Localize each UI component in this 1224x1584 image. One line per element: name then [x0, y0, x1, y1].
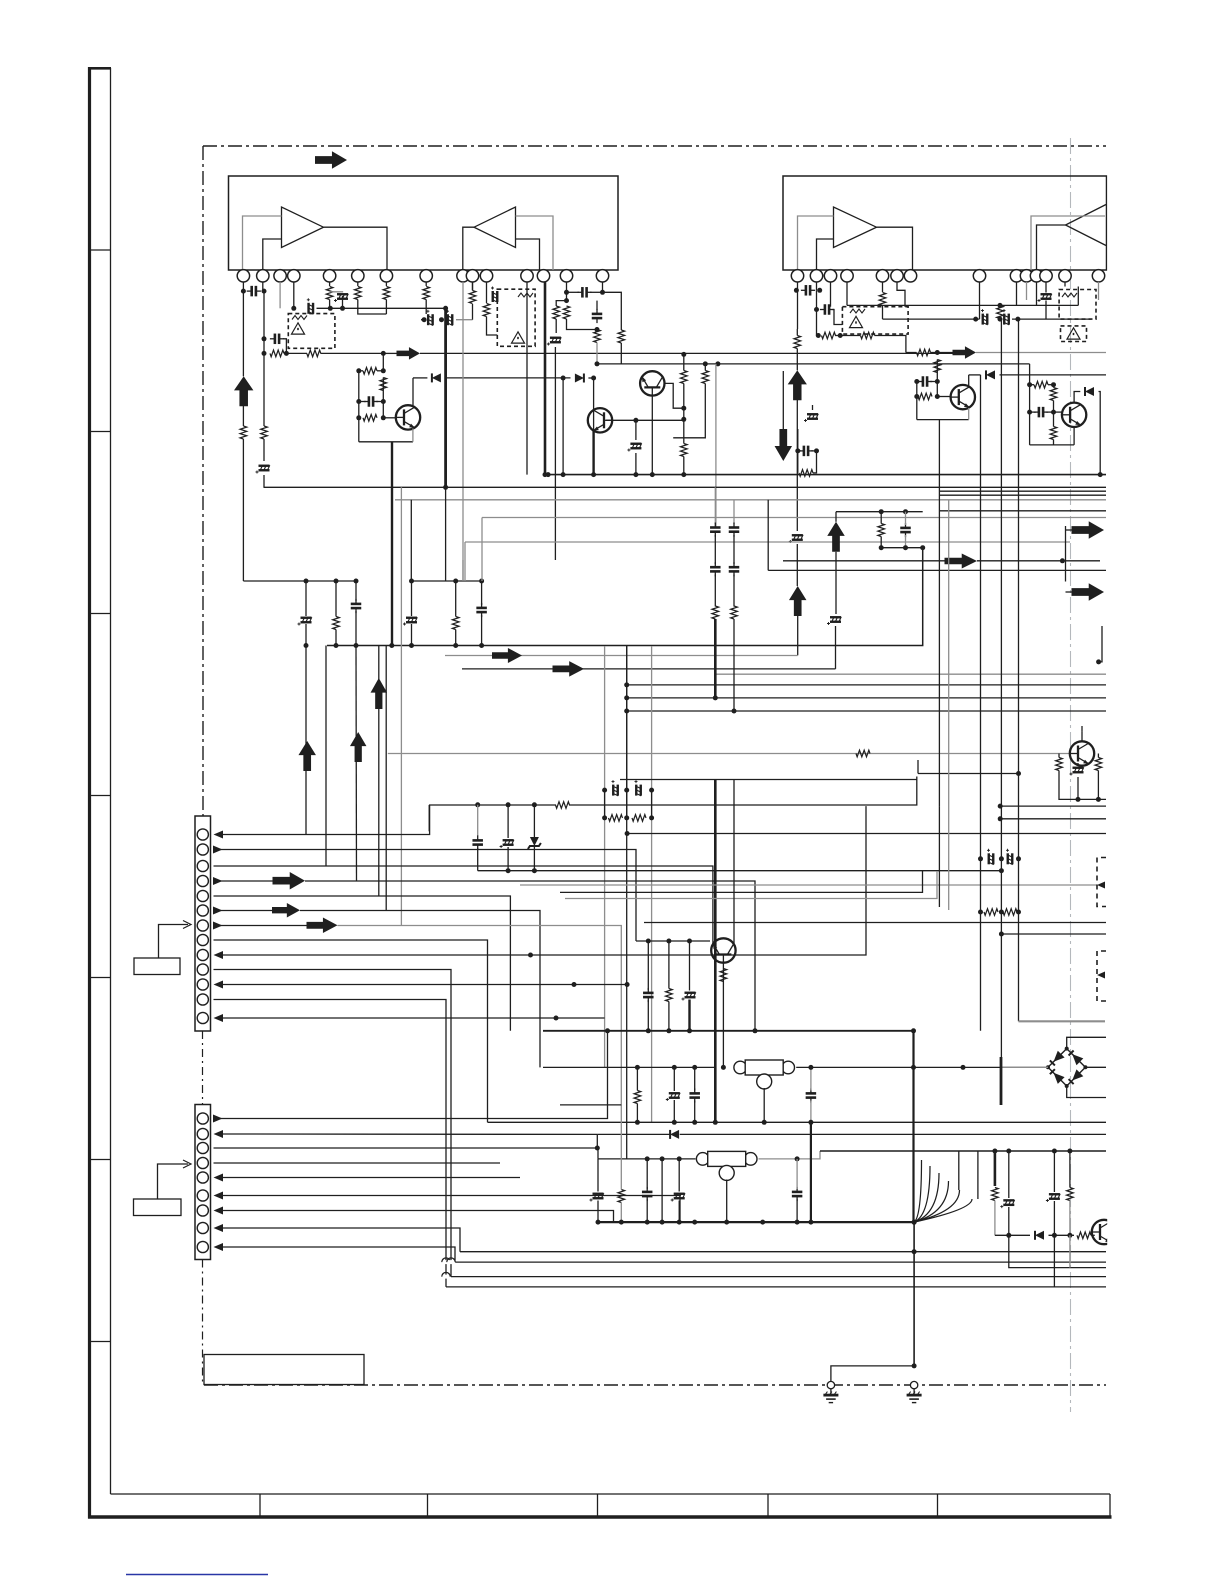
wire [704, 364, 706, 371]
net bus 474 [545, 474, 1106, 476]
frame tick [91, 431, 111, 433]
board boundary top [203, 145, 1106, 147]
resistor R9 [363, 368, 377, 375]
net [636, 940, 710, 942]
wire [620, 1105, 622, 1190]
resistor R64 [666, 989, 673, 1002]
net bus 1262 [455, 1261, 1106, 1263]
junction [453, 579, 458, 584]
junction [1051, 410, 1056, 415]
wire [930, 381, 937, 383]
junction [978, 856, 983, 861]
signal arrow [397, 347, 421, 360]
wire [1065, 526, 1067, 582]
wire [305, 881, 755, 1031]
signal arrow up [788, 370, 807, 400]
junction [935, 379, 940, 384]
signal arrow up-left [234, 376, 253, 406]
long net bus [420, 352, 959, 354]
wire row5 [214, 896, 511, 1031]
wire [410, 500, 412, 581]
junction [595, 1146, 600, 1151]
wire [1030, 444, 1075, 446]
wire [481, 581, 483, 605]
electrolytic capacitor C46 [1070, 767, 1084, 775]
wire [1036, 282, 1038, 305]
signal arrow up [789, 586, 807, 616]
wire [242, 406, 244, 426]
resistor R62 [984, 909, 998, 916]
wire [382, 402, 384, 418]
IC2 pin 11 [1030, 270, 1042, 282]
wire [445, 487, 447, 581]
wire [263, 439, 265, 461]
junction [814, 307, 819, 312]
signal arrow up [827, 522, 845, 552]
IC2 pin 9 [1010, 270, 1022, 282]
junction [543, 472, 548, 477]
wire pin1 down [242, 291, 244, 376]
wire [714, 575, 716, 607]
leader line [159, 925, 189, 959]
net bus 922 [644, 922, 1106, 924]
wire [305, 624, 307, 646]
junction [703, 361, 708, 366]
net bus 698 [627, 697, 1106, 699]
wire [355, 581, 357, 601]
junction [1067, 1233, 1072, 1238]
junction [633, 472, 638, 477]
IC1 pin 14 [560, 270, 572, 282]
capacitor C63 [689, 1093, 700, 1097]
frame tick [91, 977, 111, 979]
wire [977, 1151, 979, 1199]
wire row7 [214, 925, 307, 927]
wire [763, 1088, 765, 1122]
electrolytic capacitor C52 [500, 840, 514, 848]
wire [355, 646, 358, 882]
junction [262, 351, 267, 356]
junction [998, 804, 1003, 809]
warning triangle [1067, 328, 1080, 339]
resistor R7 [383, 287, 390, 300]
net [565, 871, 937, 899]
wire [411, 581, 413, 616]
junction [677, 1220, 682, 1225]
capacitor C60 [643, 993, 654, 997]
signal arrow [1072, 521, 1105, 539]
junction [808, 1220, 813, 1225]
capacitor C6 [369, 396, 373, 407]
wire [651, 396, 653, 475]
junction [532, 802, 537, 807]
wire [1018, 774, 1020, 1022]
connector CN1 pin 6 [197, 905, 208, 916]
wire [1053, 1201, 1055, 1235]
wire [455, 581, 457, 617]
wire [796, 1199, 798, 1222]
connector CN1 pin 1 [197, 829, 208, 840]
wire [673, 1067, 675, 1091]
resistor R56 [712, 606, 719, 619]
wire [1053, 440, 1055, 445]
junction [1067, 1149, 1072, 1154]
resistor R57 [731, 606, 738, 619]
board label box bottom-left [204, 1355, 364, 1385]
wire [590, 291, 603, 293]
wire [566, 292, 568, 300]
junction [591, 376, 596, 381]
wire CN2 row7 [223, 1211, 614, 1223]
junction [646, 1028, 651, 1033]
junction [595, 327, 600, 332]
NF network box 3 [842, 307, 908, 334]
junction [356, 399, 361, 404]
wire [321, 352, 384, 354]
wire [620, 343, 622, 364]
wire [1053, 385, 1055, 388]
junction [903, 509, 908, 514]
wire [382, 353, 384, 370]
connector CN2 outline [195, 1105, 211, 1260]
resistor R60 [609, 815, 623, 822]
wire row10 [214, 970, 452, 1277]
wire [1009, 1235, 1106, 1267]
resistor R32 [861, 332, 875, 339]
fan wire [914, 1190, 959, 1222]
resistor R66 [634, 1091, 641, 1104]
page border left inner [110, 68, 112, 1494]
junction [713, 695, 718, 700]
wire [936, 382, 938, 397]
wire trunk [1018, 319, 1020, 773]
NF network box 2 [497, 289, 535, 346]
wire CN2 row6 [223, 1196, 681, 1223]
wire [969, 374, 981, 376]
speaker line [994, 1151, 997, 1186]
IC2 pin 5 [876, 270, 888, 282]
junction [443, 485, 448, 490]
wire [759, 1151, 821, 1159]
wire [359, 370, 363, 372]
wire [1012, 318, 1091, 320]
electrolytic capacitor C45 [827, 617, 841, 625]
wire [635, 453, 637, 475]
title strip divider [767, 1494, 769, 1517]
wire trunk [1000, 319, 1002, 760]
wire [726, 1180, 728, 1223]
wire [355, 611, 357, 646]
net bus 645 [327, 548, 923, 646]
signal arrow [553, 661, 585, 677]
resistor R54 [1056, 758, 1063, 771]
junction [666, 939, 671, 944]
wire [897, 282, 905, 307]
net bus 818 [1000, 818, 1106, 820]
wire [335, 630, 337, 646]
net bus 1158 [598, 1158, 696, 1160]
junction [992, 1149, 997, 1154]
transistor Q5 [588, 408, 612, 432]
arrowhead row1 [214, 831, 224, 839]
wire [413, 377, 427, 379]
wire CN2 row5 [223, 1177, 521, 1179]
junction [912, 1220, 917, 1225]
wire [810, 1101, 812, 1123]
connector CN1 pin 3 [197, 860, 208, 871]
junction [795, 448, 800, 453]
connector CN2 pin 8 [197, 1222, 208, 1233]
IC2 pin 14 [1092, 270, 1104, 282]
wire [472, 282, 474, 291]
resistor R11 [363, 415, 377, 422]
connector CN1 pin 12 [197, 994, 208, 1005]
resistor R50 [333, 617, 340, 630]
wire [936, 360, 938, 373]
wire [400, 487, 402, 925]
bridge rectifier BR1 [1048, 1049, 1085, 1086]
wire trunk [938, 420, 940, 806]
speaker line [444, 308, 447, 487]
resistor R40 [879, 293, 886, 306]
speaker line [688, 1000, 690, 1031]
resistor R12 [423, 287, 430, 300]
capacitor C49 [729, 528, 740, 532]
transistor Q8 [1070, 741, 1094, 765]
IC1-B output wire [463, 227, 474, 270]
IC1 pin 6 [352, 270, 364, 282]
title strip divider [597, 1494, 599, 1517]
wire [477, 805, 479, 836]
resistor R3 [261, 426, 268, 439]
wire pin9 down [462, 282, 464, 581]
junction [381, 351, 386, 356]
electrolytic capacitor C4 [307, 298, 314, 314]
fan wire [914, 1199, 972, 1222]
wire [694, 1101, 696, 1123]
junction [721, 1065, 726, 1070]
wire [1066, 529, 1072, 531]
wire [683, 384, 685, 409]
capacitor C31 [804, 446, 808, 457]
board boundary left mid [202, 1031, 204, 1105]
wire [636, 1067, 638, 1090]
junction [1096, 797, 1101, 802]
capacitor C66 [642, 1192, 653, 1196]
wire [651, 646, 653, 1122]
wire [883, 318, 909, 320]
wire [242, 439, 244, 581]
junction [340, 306, 345, 311]
wire [555, 319, 557, 333]
junction [564, 298, 569, 303]
wire [936, 373, 938, 382]
frame tick [91, 613, 111, 615]
board boundary bottom [204, 1384, 1106, 1386]
net bus 1122 [488, 1121, 1107, 1123]
zener diode ZD1 [530, 837, 539, 846]
wire pin4 [293, 282, 295, 308]
wire [647, 1000, 649, 1031]
wire [678, 1201, 680, 1223]
junction [453, 643, 458, 648]
junction [879, 509, 884, 514]
junction [1051, 382, 1056, 387]
title strip right edge [1109, 1494, 1111, 1517]
resistor R16 [553, 306, 560, 319]
junction [645, 1156, 650, 1161]
wire [358, 300, 387, 315]
resistor R feedback [240, 426, 247, 439]
junction [546, 472, 551, 477]
IC1 pin 3 [274, 270, 286, 282]
wire [812, 405, 814, 410]
IC1 pin 11 [480, 270, 492, 282]
junction [650, 472, 655, 477]
board boundary left lower [202, 1260, 204, 1386]
junction [241, 289, 246, 294]
wire [604, 790, 606, 818]
signal arrow up [350, 732, 367, 762]
wire [647, 941, 649, 990]
junction [795, 1220, 800, 1225]
wire [359, 441, 413, 443]
wire [566, 282, 568, 292]
junction [532, 868, 537, 873]
wire [263, 475, 265, 487]
electrolytic capacitor C9 [491, 287, 498, 303]
junction [999, 932, 1004, 937]
wire [263, 339, 265, 354]
junction [911, 1028, 916, 1033]
ground trunk upper [912, 1032, 914, 1222]
wire [733, 575, 735, 607]
net [445, 377, 570, 379]
callout box CN2 [134, 1199, 182, 1216]
junction [602, 815, 607, 820]
junction [681, 406, 686, 411]
wire [683, 408, 685, 419]
wire [683, 354, 685, 370]
IC2 pin 2 [810, 270, 822, 282]
dashed connector box fragment [1097, 951, 1106, 1001]
connector CN1 pin 10 [197, 964, 208, 975]
junction [624, 815, 629, 820]
junction [715, 361, 720, 366]
arrowhead row6 [213, 907, 223, 915]
wire [796, 1159, 798, 1189]
net [836, 511, 923, 513]
wire [1008, 1207, 1010, 1235]
transistor Q4 [1062, 403, 1086, 427]
wire [507, 847, 509, 871]
signal arrow [1072, 583, 1105, 601]
wire pin2 down [263, 291, 265, 339]
wire row6 [214, 910, 273, 912]
junction [681, 417, 686, 422]
connector CN2 pin 3 [197, 1142, 208, 1153]
wire [1069, 1151, 1071, 1188]
wire [329, 282, 331, 286]
wire [1049, 1234, 1075, 1236]
wire [377, 370, 383, 372]
junction [998, 816, 1003, 821]
wire [376, 401, 383, 403]
wire trunk [948, 500, 950, 780]
signal arrow [492, 648, 522, 663]
wire [668, 941, 670, 989]
junction [795, 1156, 800, 1161]
net bus 753 [388, 753, 1070, 755]
wire [715, 364, 717, 528]
IC1 pin 10 [466, 270, 478, 282]
junction [304, 579, 309, 584]
wire [905, 512, 907, 525]
net [620, 779, 917, 781]
wire [306, 866, 713, 944]
wire [1097, 771, 1099, 800]
wire [330, 291, 342, 294]
transistor Q3 [951, 385, 975, 409]
junction [439, 317, 444, 322]
electrolytic capacitor C25 [1003, 309, 1010, 325]
signal arrow [272, 903, 300, 918]
junction [978, 910, 983, 915]
capacitor C64 [806, 1093, 817, 1097]
wire [569, 777, 917, 806]
junction [692, 1120, 697, 1125]
net bus 517 [482, 517, 1106, 519]
capacitor C51 [472, 840, 483, 844]
junction [409, 579, 414, 584]
electrolytic capacitor C61 [682, 992, 696, 1000]
junction [284, 351, 289, 356]
junction [291, 306, 296, 311]
wire [383, 417, 396, 419]
wire pin3 [279, 282, 281, 308]
wire [683, 419, 685, 443]
junction [262, 289, 267, 294]
wire [1053, 412, 1055, 426]
wire [596, 301, 598, 310]
arrowhead row9 [214, 951, 224, 959]
junction [1096, 659, 1101, 664]
wire [797, 429, 799, 473]
net bus 570 [768, 569, 1106, 571]
wire [1016, 282, 1018, 305]
IC2 pin 4 [841, 270, 853, 282]
junction [911, 1065, 916, 1070]
arrowhead r2 [214, 1130, 224, 1138]
net bus 655 [445, 655, 798, 657]
wire [797, 616, 799, 655]
wire [1053, 1235, 1055, 1287]
connector CN1 pin 13 [197, 1012, 208, 1023]
junction [422, 317, 427, 322]
wire [816, 282, 818, 290]
arrowhead r8 [214, 1224, 224, 1232]
junction [808, 1065, 813, 1070]
capacitor C input [252, 286, 256, 297]
NF mark [850, 309, 865, 313]
connector CN1 pin 9 [197, 949, 208, 960]
junction [1006, 1233, 1011, 1238]
connector CN1 pin 4 [197, 875, 208, 886]
capacitor C68 [792, 1192, 803, 1196]
connector CN1 pin 8 [197, 934, 208, 945]
resistor R67 [618, 1190, 625, 1203]
leader arrowhead [183, 1160, 191, 1168]
